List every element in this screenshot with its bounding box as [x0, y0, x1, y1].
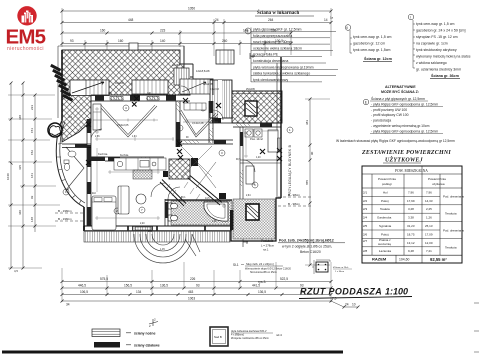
svg-text:gazobeton gr. 12 cm: gazobeton gr. 12 cm [353, 42, 385, 46]
svg-text:1,20: 1,20 [256, 157, 261, 159]
height line room 1 [96, 119, 158, 122]
column dark [219, 193, 226, 199]
right vertical dim line [305, 98, 330, 267]
right spec texts [245, 10, 471, 143]
svg-text:223: 223 [160, 29, 166, 33]
spec E circle [363, 99, 369, 105]
roof hatch area right [232, 91, 282, 123]
area table [361, 150, 464, 263]
svg-text:Terakota: Terakota [445, 246, 457, 250]
svg-text:RZUT PODDASZA: RZUT PODDASZA [300, 287, 382, 297]
svg-text:25,13: 25,13 [425, 224, 433, 228]
svg-text:152: 152 [30, 150, 34, 155]
diagonal hall wall 1 [160, 180, 186, 207]
svg-text:Pokój: Pokój [381, 199, 389, 203]
spec II circle [345, 25, 351, 31]
svg-text:2/7: 2/7 [363, 239, 368, 243]
svg-text:226: 226 [190, 277, 196, 281]
svg-text:Ściana w lukarnach: Ściana w lukarnach [257, 10, 299, 16]
stairwell outline step [184, 46, 213, 95]
svg-text:MOŻE BYĆ ŚCIANA Z:: MOŻE BYĆ ŚCIANA Z: [381, 89, 419, 94]
svg-text:suszarnią: suszarnią [378, 242, 391, 246]
svg-text:2,86: 2,86 [95, 136, 100, 138]
deck band below bottom wall [84, 231, 230, 243]
svg-text:W łazienkach stosować płytę Ri: W łazienkach stosować płytę Rigips GKF o… [336, 139, 455, 143]
svg-text:2/2: 2/2 [363, 199, 368, 203]
door swing X right [196, 162, 216, 188]
spec F circle [245, 28, 251, 34]
svg-text:Toaleta: Toaleta [380, 207, 390, 211]
svg-text:1,35: 1,35 [212, 221, 217, 223]
table circle living [136, 194, 146, 204]
svg-text:tynk cem-wap gr. 1,5 cm: tynk cem-wap gr. 1,5 cm [353, 35, 391, 39]
bath top wall [165, 199, 232, 201]
terrace step arcs [134, 234, 200, 263]
bath tile hatch [171, 201, 232, 225]
svg-text:20,1: 20,1 [181, 197, 186, 199]
height line room 2 [183, 121, 218, 124]
terrace tile hatch right [233, 199, 275, 239]
svg-text:24: 24 [345, 303, 349, 307]
interior wall hall (x210) [209, 101, 213, 143]
svg-text:2,64: 2,64 [246, 195, 251, 197]
svg-text:7,96: 7,96 [426, 190, 432, 194]
legend item walls partition [94, 342, 120, 348]
stairwell flight 2 [180, 79, 210, 94]
svg-text:34: 34 [66, 303, 70, 307]
svg-text:w tym 2 odgięte.strz.Ø6 co 25c: w tym 2 odgięte.strz.Ø6 co 25cm, [282, 245, 332, 249]
svg-text:Beton C16/20: Beton C16/20 [300, 250, 321, 254]
svg-text:136,5: 136,5 [258, 290, 266, 294]
svg-text:B - 98cm: B - 98cm [288, 202, 301, 206]
svg-text:Pod. drewniana: Pod. drewniana [443, 195, 464, 199]
bottom dim ticks [61, 280, 360, 309]
svg-text:4,5: 4,5 [14, 269, 18, 273]
attic stair box in roof [70, 80, 109, 96]
balcony striped band top-right [210, 80, 232, 118]
dashed B lines left [55, 213, 84, 221]
svg-text:93: 93 [196, 284, 200, 288]
svg-text:Ściana gr. 12cm: Ściana gr. 12cm [364, 56, 393, 61]
dashed B lines right [278, 197, 312, 206]
chimney box above stairwell [216, 50, 234, 64]
svg-text:7,5: 7,5 [332, 297, 337, 301]
svg-text:Ściana z płyt gipsowych gr. 12: Ściana z płyt gipsowych gr. 12,5mm [371, 96, 425, 101]
svg-text:tynk strukturalny akrylowy: tynk strukturalny akrylowy [416, 48, 457, 52]
washing machines [245, 129, 262, 137]
table finish col merged [443, 195, 464, 250]
bath top-left wall [62, 144, 91, 148]
table header texts [378, 177, 446, 186]
logo EM5 circle [6, 6, 46, 52]
svg-text:254x035: 254x035 [246, 89, 256, 91]
roof hatch right top edge double line [232, 93, 282, 95]
room number circles [63, 105, 293, 214]
dim row 1 [62, 10, 331, 12]
left dim numbers (rotated) [6, 105, 34, 273]
svg-text:na zaprawie gr. 1cm: na zaprawie gr. 1cm [416, 42, 448, 46]
dim row 4 [62, 43, 291, 45]
svg-text:tynk cem-wap gr. 1,5 cm: tynk cem-wap gr. 1,5 cm [416, 22, 454, 26]
svg-text:446,5: 446,5 [78, 284, 86, 288]
spec F row lines [251, 32, 338, 82]
svg-text:93: 93 [30, 195, 34, 199]
spec II bracket line [350, 30, 352, 53]
svg-text:Pokój: Pokój [381, 232, 389, 236]
svg-text:12x18,5x28: 12x18,5x28 [196, 69, 210, 73]
section mark 2-2 [149, 319, 158, 326]
svg-text:93: 93 [70, 39, 74, 43]
spec E rows [371, 96, 438, 133]
wc top-left [64, 160, 70, 170]
svg-text:134: 134 [136, 290, 142, 294]
svg-text:RAZEM: RAZEM [372, 257, 387, 262]
svg-text:90: 90 [310, 151, 314, 155]
interior wall horizontal y143 [176, 140, 233, 144]
svg-text:448: 448 [128, 18, 134, 22]
svg-text:383: 383 [305, 120, 309, 125]
svg-text:3,12x2,28: 3,12x2,28 [192, 121, 204, 125]
interior wall vertical left (x88) [87, 119, 91, 226]
svg-text:150: 150 [148, 230, 153, 233]
chevron roofline room 2 [179, 110, 218, 137]
svg-text:I: I [410, 15, 411, 19]
terrace left wall dark [230, 210, 234, 230]
svg-text:7,21: 7,21 [426, 249, 432, 253]
right vertical dim numbers [305, 120, 314, 185]
spec F bracket [250, 53, 255, 59]
interior dim string vertical left room [95, 107, 278, 220]
svg-text:Słup żelb. 24 x 24[cm]: Słup żelb. 24 x 24[cm] [246, 262, 274, 266]
diag lines hall [181, 146, 212, 177]
diagonal hall wall 2 [188, 176, 222, 206]
tree symbol [48, 123, 62, 137]
svg-text:tynk cem-wap gr. 1,5cm: tynk cem-wap gr. 1,5cm [353, 48, 390, 52]
door arcs [91, 86, 255, 199]
svg-text:rys.3.: rys.3. [258, 280, 266, 284]
title RZUT PODDASZA [299, 287, 412, 299]
svg-text:Sł-1: Sł-1 [233, 263, 239, 267]
legend [2, 303, 479, 354]
left dim ticks [10, 82, 37, 270]
dim ticks [61, 10, 333, 46]
desk room2 [268, 130, 278, 152]
kitchen dark posts [191, 158, 198, 166]
svg-text:PRZYLEGAJĄCY BUDYNEK B: PRZYLEGAJĄCY BUDYNEK B [288, 145, 292, 196]
dashed B labels left [58, 209, 72, 221]
svg-text:- płyta Rigips GKF ognioodporn: - płyta Rigips GKF ognioodporna gr. 12,5… [371, 129, 438, 133]
washbasin [68, 151, 76, 157]
svg-text:12,00: 12,00 [425, 241, 433, 245]
svg-text:Ściana gr. 36cm: Ściana gr. 36cm [431, 73, 460, 78]
svg-text:1:100: 1:100 [385, 287, 408, 297]
roof window square right [245, 101, 257, 116]
svg-text:B - 198cm: B - 198cm [58, 209, 72, 213]
svg-text:463: 463 [188, 290, 194, 294]
dashed B labels right [288, 193, 301, 206]
svg-text:Sypialnia: Sypialnia [379, 224, 392, 228]
svg-text:rys.1.: rys.1. [263, 249, 269, 252]
kitchen tile block [133, 170, 152, 179]
svg-text:2,20: 2,20 [140, 223, 145, 225]
svg-text:tynk cienkowarstwowy: tynk cienkowarstwowy [253, 78, 288, 82]
svg-text:L = 278cm: L = 278cm [261, 244, 275, 248]
svg-text:- profil słupkowy CW 100: - profil słupkowy CW 100 [371, 113, 409, 117]
svg-text:F: F [247, 29, 249, 33]
svg-text:1050: 1050 [188, 7, 195, 11]
svg-text:- wypełnienie wełną mineralną: - wypełnienie wełną mineralną gr.10cm [371, 124, 430, 128]
svg-text:148: 148 [30, 217, 34, 222]
svg-text:104,60: 104,60 [399, 258, 409, 262]
chevron bay room [66, 147, 84, 190]
svg-text:17,09: 17,09 [425, 232, 433, 236]
svg-text:Hol: Hol [383, 190, 388, 194]
dormer window band in left roof [132, 80, 168, 94]
svg-text:Kuchnia: Kuchnia [120, 155, 129, 157]
svg-text:1a: 1a [330, 16, 334, 20]
svg-text:2/5: 2/5 [363, 224, 368, 228]
sofa living [118, 186, 129, 214]
svg-text:24: 24 [215, 18, 219, 22]
svg-text:Kuchnia: Kuchnia [98, 152, 108, 156]
svg-text:Pod. żelb. 24x35[cm] zbroj.6Ø1: Pod. żelb. 24x35[cm] zbroj.6Ø12 [279, 239, 334, 243]
outer wall bottom-left stub [83, 207, 85, 231]
right edge marks [474, 303, 479, 352]
svg-text:92,55 m²: 92,55 m² [430, 257, 447, 262]
svg-text:E: E [365, 100, 367, 104]
svg-text:ściany działowe: ściany działowe [134, 343, 160, 347]
svg-text:gr. uziarnienia średnicy 3mm: gr. uziarnienia średnicy 3mm [416, 68, 461, 72]
spec II rows [353, 35, 391, 52]
svg-text:Nad B: Nad B [214, 335, 222, 339]
svg-text:151: 151 [30, 128, 34, 133]
wardrobe top-left room [93, 104, 101, 130]
svg-text:415: 415 [18, 165, 22, 170]
svg-text:0,9x2,03: 0,9x2,03 [210, 89, 220, 91]
bay window curved wall [56, 120, 85, 207]
svg-text:styropian FS -15 gr. 12 cm: styropian FS -15 gr. 12 cm [416, 35, 458, 39]
svg-text:136,5: 136,5 [160, 284, 168, 288]
stair treads between diagonals [166, 182, 200, 202]
svg-text:575,5: 575,5 [100, 277, 108, 281]
svg-text:ruszt metalowy gr. 30mm: ruszt metalowy gr. 30mm [253, 40, 292, 44]
radiators [110, 97, 281, 231]
svg-text:Powierzchnia: Powierzchnia [378, 177, 396, 181]
svg-text:nieruchomości: nieruchomości [7, 46, 44, 52]
right rooms walls [233, 123, 281, 199]
svg-text:ocieplenie wełną szklaną 18cm: ocieplenie wełną szklaną 18cm [253, 46, 302, 50]
svg-text:2,64x2,05: 2,64x2,05 [117, 123, 129, 127]
left dim line a [10, 83, 12, 268]
kitchen hatch block [169, 159, 190, 179]
svg-text:folia paroprzepuszczalna: folia paroprzepuszczalna [253, 34, 292, 38]
svg-text:B - 198cm: B - 198cm [58, 217, 72, 221]
corner bathtub [204, 202, 228, 221]
chimney notch top edge [129, 43, 138, 50]
svg-text:wykonany metodą mokrą na siatc: wykonany metodą mokrą na siatce [416, 55, 471, 59]
svg-text:160: 160 [118, 39, 124, 43]
bottom dim numbers [66, 277, 356, 306]
svg-text:264: 264 [268, 18, 274, 22]
svg-text:1,26: 1,26 [426, 216, 432, 220]
svg-text:Ø 6mm co 25ck: Ø 6mm co 25ck [333, 267, 349, 269]
left dim horizontal extenders [8, 95, 60, 268]
svg-text:płyta gipsowa GKF gr. 12,5mm: płyta gipsowa GKF gr. 12,5mm [253, 28, 302, 32]
terrace window dark square [246, 204, 259, 220]
svg-text:- profil poziomy UW 100: - profil poziomy UW 100 [371, 108, 407, 112]
dim extension lines [62, 8, 331, 56]
outer wall left [61, 50, 63, 120]
bottom wall lintels [84, 226, 231, 231]
svg-text:441,5: 441,5 [252, 284, 260, 288]
outside stairs zigzag [50, 64, 73, 102]
spec I circle [408, 14, 414, 20]
table frame [362, 166, 462, 263]
svg-text:II: II [346, 26, 348, 30]
bottom right structural notes [233, 239, 352, 285]
svg-text:9,48: 9,48 [408, 249, 414, 253]
svg-text:10: 10 [352, 303, 356, 307]
svg-text:448: 448 [18, 115, 22, 120]
svg-text:034x035: 034x035 [115, 83, 125, 85]
svg-text:3,38: 3,38 [408, 216, 414, 220]
svg-text:14: 14 [324, 18, 328, 22]
svg-text:31,23: 31,23 [407, 224, 415, 228]
dim numbers [70, 7, 334, 44]
svg-text:161: 161 [30, 173, 34, 178]
svg-text:ALTERNATYWNIE: ALTERNATYWNIE [385, 85, 416, 89]
svg-text:1,94: 1,94 [132, 136, 137, 138]
window boxes in bottom wall [133, 227, 152, 231]
svg-text:2/1: 2/1 [363, 190, 368, 194]
svg-text:18,75: 18,75 [407, 232, 415, 236]
table data rows [363, 190, 433, 253]
svg-text:izolacja folia PE: izolacja folia PE [253, 53, 279, 57]
svg-text:Terakota: Terakota [445, 212, 457, 216]
svg-text:12x18,5: 12x18,5 [172, 65, 181, 67]
svg-text:7,96: 7,96 [408, 190, 414, 194]
stairwell flight 1 [174, 68, 189, 85]
wall band below balcony [210, 118, 233, 123]
spec I rows [416, 22, 471, 72]
svg-text:140: 140 [160, 39, 166, 43]
svg-text:223: 223 [30, 105, 34, 110]
right wall of building [280, 57, 282, 198]
floor plan [48, 43, 330, 267]
bottom dim row 2 [62, 287, 331, 289]
svg-text:Pod.żelb: Pod.żelb [261, 239, 274, 243]
svg-text:1,45: 1,45 [160, 248, 165, 251]
dim row 2 [62, 22, 331, 24]
left dim line c [34, 95, 36, 232]
svg-text:konstrukcja drewniana: konstrukcja drewniana [253, 59, 288, 63]
svg-text:13,12: 13,12 [407, 241, 415, 245]
Nad B notes [231, 330, 269, 340]
svg-text:2/6: 2/6 [363, 232, 368, 236]
svg-text:2,25: 2,25 [426, 207, 432, 211]
bed bottom-left room [92, 196, 116, 230]
svg-text:655: 655 [305, 180, 309, 185]
svg-text:z włókna szklanego: z włókna szklanego [416, 61, 447, 65]
svg-text:17,99: 17,99 [407, 199, 415, 203]
svg-text:- płyta Rigips GKF ognioodporn: - płyta Rigips GKF ognioodporna gr. 12,5… [371, 102, 438, 106]
bath left wall [165, 199, 168, 226]
dim row 3 [62, 32, 291, 34]
svg-text:Powierzchnia: Powierzchnia [428, 177, 446, 181]
tiny dim specks [68, 65, 283, 225]
bottom dim row 3 [62, 294, 331, 296]
svg-text:156,5: 156,5 [124, 284, 132, 288]
bottom wall [84, 226, 231, 231]
svg-text:1040: 1040 [6, 173, 10, 180]
top dimension lines [61, 7, 334, 56]
interior wall vertical between top rooms (x177) [176, 101, 180, 147]
svg-text:14,5: 14,5 [205, 198, 210, 200]
svg-text:nd.4: nd.4 [276, 333, 282, 337]
svg-text:3,28: 3,28 [408, 207, 414, 211]
X marks [132, 102, 137, 107]
svg-text:Strzemiona Ø6 co 25cm: Strzemiona Ø6 co 25cm [250, 271, 277, 274]
svg-text:160: 160 [100, 29, 106, 33]
svg-text:POW. MIESZKALNA: POW. MIESZKALNA [395, 169, 428, 173]
wardrobe row top room2 [184, 103, 206, 110]
svg-text:ściany nośne: ściany nośne [134, 331, 156, 335]
svg-text:podłogi: podłogi [382, 182, 392, 186]
bottom dims [61, 262, 360, 309]
svg-text:440: 440 [18, 210, 22, 215]
spec I bracket line [413, 20, 415, 68]
left dim line b [22, 83, 24, 268]
legend item walls loadbearing [92, 329, 120, 337]
kitchen cabinets [114, 158, 166, 170]
Nad B detail box [210, 327, 228, 346]
svg-text:2/8: 2/8 [363, 249, 368, 253]
right terrace walls [231, 198, 281, 241]
svg-text:UŻYTKOWEJ: UŻYTKOWEJ [385, 156, 424, 164]
toilet and bidet [168, 203, 178, 221]
svg-text:użytkowa: użytkowa [432, 182, 445, 186]
roof hatch area top-left [62, 50, 190, 142]
svg-text:0,9x2,05: 0,9x2,05 [203, 82, 214, 86]
spec F rows [253, 28, 314, 82]
table razem row [372, 257, 447, 262]
svg-text:522,5: 522,5 [280, 277, 288, 281]
bottom dim row 1 [62, 281, 331, 283]
small room texts [98, 69, 263, 251]
svg-text:- paroizolacja: - paroizolacja [371, 119, 391, 123]
roof overhang outline top-left [58, 46, 193, 118]
svg-text:Zbrojenie rozdzielcze Ø6 co 25: Zbrojenie rozdzielcze Ø6 co 25cm [231, 337, 269, 340]
cabinet right room [246, 166, 254, 184]
bottom extension lines [62, 262, 331, 302]
svg-text:Garderoba: Garderoba [377, 216, 392, 220]
interior wall bath top (y157) [105, 157, 164, 161]
interior dim strings [95, 120, 248, 192]
svg-text:Pow. 14m2: Pow. 14m2 [250, 137, 263, 141]
svg-text:2/4: 2/4 [363, 216, 368, 220]
svg-text:1063: 1063 [188, 297, 195, 301]
svg-text:1 = 30cm: 1 = 30cm [335, 271, 344, 273]
svg-text:płyta wiórowa impregnowana gr.: płyta wiórowa impregnowana gr.19mm [253, 65, 314, 69]
logo building icon [22, 11, 34, 23]
lintel symbol [243, 239, 248, 247]
svg-text:gazobeton gr. 24 x 24 x 59 [cm: gazobeton gr. 24 x 24 x 59 [cm] [416, 29, 466, 33]
svg-text:Pod. drewniana: Pod. drewniana [443, 229, 464, 233]
dark wall seg y157 [91, 157, 105, 162]
svg-text:2/3: 2/3 [363, 207, 368, 211]
rebar section symbol [312, 260, 330, 274]
bottom dim row 4 with tail [62, 301, 358, 307]
